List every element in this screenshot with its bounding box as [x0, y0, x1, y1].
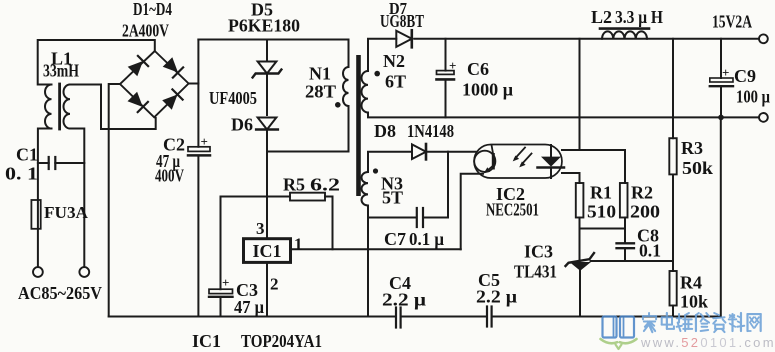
svg-text:D1~D4: D1~D4 [133, 0, 172, 19]
svg-text:C6: C6 [467, 59, 489, 79]
svg-text:N1: N1 [309, 64, 331, 84]
svg-text:www.520101.com: www.520101.com [640, 335, 775, 350]
svg-text:33mH: 33mH [43, 61, 79, 81]
svg-text:D6: D6 [231, 115, 253, 135]
svg-text:+: + [722, 65, 729, 80]
svg-text:C1: C1 [16, 145, 38, 165]
svg-text:10k: 10k [680, 292, 708, 312]
svg-text:6.2: 6.2 [310, 175, 340, 195]
svg-text:TOP204YA1: TOP204YA1 [241, 331, 322, 351]
svg-text:N2: N2 [383, 51, 405, 71]
svg-text:L2: L2 [591, 7, 612, 27]
svg-text:0.1 μ: 0.1 μ [409, 229, 444, 249]
svg-text:28T: 28T [305, 82, 336, 102]
svg-text:2.2 μ: 2.2 μ [476, 287, 517, 307]
svg-text:UG8BT: UG8BT [380, 11, 424, 31]
svg-text:15V2A: 15V2A [712, 12, 752, 32]
svg-text:1: 1 [294, 235, 303, 254]
svg-text:510: 510 [587, 202, 616, 222]
svg-text:2: 2 [270, 275, 279, 294]
svg-text:P6KE180: P6KE180 [228, 16, 300, 36]
svg-text:+: + [449, 58, 456, 73]
svg-text:C9: C9 [734, 66, 756, 86]
svg-text:1000 μ: 1000 μ [462, 80, 513, 100]
svg-text:3.3 μ H: 3.3 μ H [615, 7, 663, 27]
svg-text:UF4005: UF4005 [209, 88, 257, 108]
svg-text:FU3A: FU3A [44, 203, 89, 222]
svg-text:47 μ: 47 μ [234, 297, 264, 317]
svg-text:IC1: IC1 [252, 241, 281, 261]
svg-text:+: + [201, 134, 208, 149]
svg-text:R3: R3 [681, 138, 703, 158]
svg-text:2A400V: 2A400V [122, 21, 169, 41]
svg-text:R4: R4 [680, 273, 702, 293]
svg-text:3: 3 [256, 219, 265, 238]
svg-text:100 μ: 100 μ [736, 87, 770, 107]
svg-text:0. 1: 0. 1 [5, 164, 38, 184]
svg-text:50k: 50k [682, 158, 713, 178]
svg-text:TL431: TL431 [514, 262, 557, 282]
svg-text:1N4148: 1N4148 [407, 121, 454, 141]
svg-text:5T: 5T [382, 188, 403, 208]
svg-text:AC85~265V: AC85~265V [18, 283, 102, 303]
svg-text:6T: 6T [385, 72, 406, 92]
svg-text:IC3: IC3 [524, 242, 553, 262]
svg-text:R2: R2 [631, 183, 653, 203]
svg-text:400V: 400V [155, 166, 184, 186]
svg-text:C7: C7 [384, 229, 406, 249]
svg-text:R5: R5 [283, 175, 305, 195]
svg-text:R1: R1 [590, 183, 612, 203]
svg-text:2.2 μ: 2.2 μ [382, 290, 426, 310]
svg-text:200: 200 [630, 202, 660, 222]
svg-text:D8: D8 [374, 121, 396, 141]
svg-text:NEC2501: NEC2501 [486, 200, 539, 220]
svg-text:IC1: IC1 [192, 331, 221, 351]
svg-text:+: + [222, 275, 229, 290]
svg-text:0.1: 0.1 [639, 241, 661, 261]
